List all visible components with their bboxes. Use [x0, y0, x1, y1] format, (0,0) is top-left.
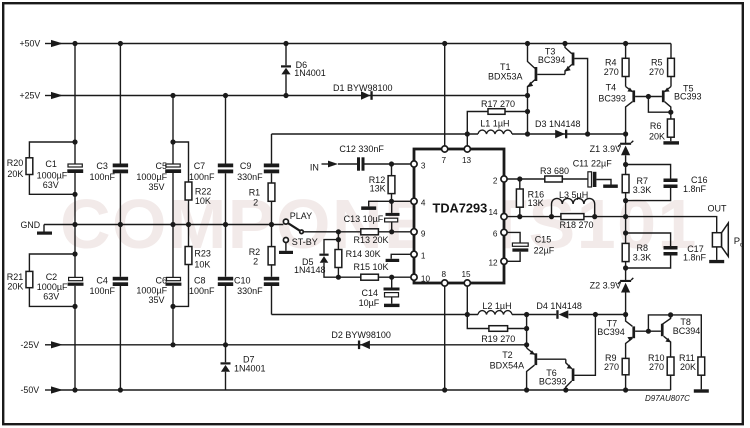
capacitor C5: [136, 161, 181, 192]
svg-text:R3 680: R3 680: [540, 166, 569, 176]
ground bar under R11: [694, 389, 709, 392]
svg-text:C8: C8: [194, 276, 206, 286]
resistor R12: [369, 164, 395, 201]
capacitor C11: [573, 159, 613, 188]
svg-text:13: 13: [462, 156, 472, 165]
pin 1: [411, 251, 426, 260]
capacitor C15: [507, 232, 555, 261]
capacitor C13: [344, 201, 400, 232]
wire T7/T8 base tie: [635, 312, 673, 334]
pin 14: [489, 208, 508, 220]
node -50V label and arrow: [21, 385, 64, 395]
svg-text:C1: C1: [45, 159, 57, 169]
wire T4/T5 base tie: [635, 94, 673, 115]
svg-text:BC394: BC394: [597, 327, 625, 337]
pin 15: [462, 270, 472, 286]
svg-text:4: 4: [421, 199, 426, 208]
svg-text:35V: 35V: [149, 295, 165, 305]
svg-text:22µF: 22µF: [534, 245, 555, 255]
svg-text:100nF: 100nF: [189, 286, 215, 296]
svg-text:ST-BY: ST-BY: [292, 237, 318, 247]
svg-text:BDX53A: BDX53A: [488, 72, 523, 82]
zener Z1: [590, 134, 634, 165]
svg-text:Z1 3.9V: Z1 3.9V: [590, 144, 622, 154]
capacitor C2: [37, 272, 84, 302]
svg-text:C6: C6: [156, 276, 168, 286]
svg-text:100nF: 100nF: [90, 172, 116, 182]
capacitor C17: [623, 230, 707, 270]
svg-text:63V: 63V: [43, 292, 59, 302]
wire pin13 drop: [466, 134, 468, 146]
inductor L3: [552, 190, 595, 217]
capacitor C9: [237, 161, 279, 182]
capacitor C16: [623, 162, 708, 203]
wire GND rail: [44, 222, 283, 227]
svg-text:270: 270: [649, 362, 664, 372]
svg-text:10K: 10K: [194, 260, 210, 270]
resistor R19: [467, 315, 529, 344]
inductor L2: [478, 301, 512, 315]
transistor T2: [490, 348, 538, 390]
wire C5/C6 column: [170, 96, 175, 345]
svg-text:C2: C2: [46, 272, 58, 282]
svg-text:15: 15: [462, 270, 472, 279]
pin 3: [411, 161, 426, 170]
zener Z2: [590, 268, 634, 315]
ground bar under ST-BY: [279, 243, 293, 254]
pin 4: [411, 198, 426, 207]
svg-text:C15: C15: [535, 234, 552, 244]
svg-text:10µF: 10µF: [359, 298, 380, 308]
transistor T7: [597, 315, 635, 359]
capacitor C7: [189, 161, 233, 182]
svg-text:2: 2: [253, 257, 258, 267]
svg-text:IN: IN: [310, 163, 319, 173]
capacitor C14: [359, 277, 400, 308]
resistor R23: [173, 225, 211, 307]
transistor T6: [539, 315, 596, 391]
svg-text:R13 20K: R13 20K: [354, 235, 389, 245]
resistor R20: [7, 142, 75, 194]
wire C3/C4 column: [119, 44, 121, 391]
pin 13: [462, 146, 472, 165]
svg-text:o: o: [740, 242, 744, 249]
svg-text:BDX54A: BDX54A: [490, 360, 525, 370]
wire -50V rail: [57, 387, 671, 392]
resistor R9: [604, 353, 629, 390]
svg-text:R6: R6: [650, 121, 662, 131]
pin 9: [411, 229, 426, 239]
capacitor C3: [90, 161, 129, 182]
wire pin4 line: [389, 199, 411, 204]
svg-text:1000µF: 1000µF: [136, 286, 167, 296]
capacitor C4: [90, 276, 129, 297]
svg-text:C12 330nF: C12 330nF: [339, 144, 384, 154]
resistor R5: [649, 44, 674, 87]
svg-text:2: 2: [253, 198, 258, 208]
diode D3: [535, 119, 581, 138]
svg-text:T1: T1: [500, 62, 511, 72]
svg-text:8: 8: [442, 270, 447, 279]
svg-text:13K: 13K: [370, 184, 386, 194]
op-amp U1 TDA7293 body: [414, 149, 504, 283]
svg-text:270: 270: [604, 67, 619, 77]
svg-text:10K: 10K: [195, 196, 211, 206]
svg-text:330nF: 330nF: [237, 172, 263, 182]
ground bar at pin4 node: [361, 201, 391, 210]
svg-text:R5: R5: [651, 57, 663, 67]
svg-text:1N4001: 1N4001: [234, 364, 266, 374]
svg-text:9: 9: [421, 229, 426, 238]
svg-text:3: 3: [421, 161, 426, 170]
capacitor C6: [136, 276, 181, 306]
resistor R6: [649, 112, 674, 141]
speaker P: [709, 223, 744, 263]
svg-text:270: 270: [649, 67, 664, 77]
transistor T3: [538, 44, 588, 135]
svg-text:+50V: +50V: [20, 39, 41, 49]
svg-text:R15 10K: R15 10K: [354, 262, 389, 272]
svg-text:3.3K: 3.3K: [633, 185, 652, 195]
svg-text:R19 270: R19 270: [481, 334, 515, 344]
svg-text:6: 6: [493, 230, 498, 239]
resistor R14: [335, 232, 381, 280]
diode D2: [331, 330, 391, 349]
resistor R17: [467, 99, 530, 134]
node -25V label and arrow: [21, 340, 64, 350]
svg-text:13K: 13K: [528, 198, 544, 208]
ground bar at C11: [596, 180, 617, 188]
svg-text:1N4001: 1N4001: [294, 68, 326, 78]
wire OUT line: [507, 214, 717, 233]
wire pin10 line: [338, 275, 410, 280]
svg-text:D2 BYW98100: D2 BYW98100: [331, 330, 391, 340]
svg-text:BC394: BC394: [538, 55, 566, 65]
svg-text:BC394: BC394: [673, 326, 701, 336]
svg-text:D4 1N4148: D4 1N4148: [536, 301, 582, 311]
resistor R7: [622, 165, 651, 201]
svg-text:1.8nF: 1.8nF: [683, 253, 707, 263]
wire node B column x=527.5: [527, 96, 529, 135]
resistor R11: [671, 315, 705, 389]
resistor R13: [354, 229, 389, 245]
switch lever: [288, 223, 303, 234]
svg-text:BC393: BC393: [598, 93, 626, 103]
svg-text:GND: GND: [21, 220, 41, 230]
svg-text:+25V: +25V: [20, 91, 41, 101]
svg-text:100nF: 100nF: [189, 172, 215, 182]
capacitor C10: [234, 276, 279, 297]
svg-text:12: 12: [489, 259, 499, 268]
diode D6: [281, 44, 326, 96]
resistor R2: [249, 247, 275, 267]
resistor R3: [540, 166, 588, 182]
switch PLAY contact: [283, 211, 312, 224]
svg-text:C11 22µF: C11 22µF: [573, 159, 613, 169]
svg-text:C7: C7: [194, 161, 206, 171]
pin 8: [442, 270, 448, 286]
wire pin15 drop: [466, 286, 468, 314]
svg-text:7: 7: [442, 156, 447, 165]
svg-text:TDA7293: TDA7293: [433, 201, 488, 216]
diode D4: [536, 301, 582, 319]
svg-text:C14: C14: [362, 288, 379, 298]
svg-text:C10: C10: [234, 276, 251, 286]
resistor R8: [622, 233, 651, 268]
wire C9/R1 column: [271, 134, 273, 225]
svg-text:L3 5µH: L3 5µH: [559, 190, 588, 200]
svg-text:-25V: -25V: [21, 340, 40, 350]
switch ST-BY contact: [283, 237, 317, 247]
wire pin13 supply line y=134: [272, 131, 629, 136]
svg-text:L2 1µH: L2 1µH: [482, 301, 511, 311]
resistor R15: [354, 262, 389, 280]
diode D5: [294, 240, 338, 278]
svg-text:D3 1N4148: D3 1N4148: [535, 119, 581, 129]
svg-text:PLAY: PLAY: [290, 211, 312, 221]
svg-text:3.3K: 3.3K: [633, 253, 652, 263]
resistor R16: [516, 179, 544, 217]
pin 2: [493, 176, 507, 186]
resistor R10: [648, 353, 674, 390]
capacitor C1: [37, 159, 84, 190]
svg-text:330nF: 330nF: [237, 286, 263, 296]
svg-text:BC393: BC393: [674, 91, 702, 101]
svg-text:20K: 20K: [7, 169, 23, 179]
svg-text:63V: 63V: [43, 180, 59, 190]
svg-text:R20: R20: [7, 158, 24, 168]
resistor R1: [249, 183, 275, 208]
svg-text:100nF: 100nF: [90, 286, 116, 296]
wire pin8 to -50V: [444, 286, 446, 390]
capacitor C8: [189, 276, 233, 297]
ground bar at pin1: [386, 254, 411, 262]
svg-text:C9: C9: [240, 161, 252, 171]
wire node B2 column x=526.6: [526, 315, 528, 349]
transistor T1: [488, 44, 537, 96]
pin 6: [493, 229, 507, 238]
svg-text:1000µF: 1000µF: [136, 172, 167, 182]
wire -25V rail: [57, 342, 529, 347]
svg-text:10: 10: [421, 274, 431, 283]
transistor T5: [662, 83, 702, 112]
svg-text:270: 270: [604, 362, 619, 372]
svg-text:D97AU807C: D97AU807C: [645, 394, 690, 403]
svg-text:OUT: OUT: [708, 204, 728, 214]
wire R2/C10 column: [271, 225, 273, 315]
svg-text:1000µF: 1000µF: [37, 282, 68, 292]
svg-text:L1 1µH: L1 1µH: [480, 119, 509, 129]
wire C1/C2 column: [72, 44, 77, 391]
svg-text:R1: R1: [249, 188, 261, 198]
wire C7/C8 column: [225, 96, 227, 345]
svg-text:Z2 3.9V: Z2 3.9V: [590, 280, 622, 290]
diode D7: [221, 345, 266, 390]
capacitor C12: [338, 144, 411, 171]
svg-text:14: 14: [489, 208, 499, 217]
pin 12: [489, 258, 508, 267]
svg-text:BC393: BC393: [539, 376, 567, 386]
svg-text:20K: 20K: [7, 281, 23, 291]
resistor R22: [173, 142, 211, 225]
svg-text:T2: T2: [502, 350, 513, 360]
resistor R4: [604, 44, 629, 87]
node +25V label and arrow: [20, 91, 64, 101]
wire R7 node to OUT: [625, 201, 627, 233]
svg-text:C3: C3: [96, 161, 108, 171]
svg-text:R17 270: R17 270: [481, 99, 515, 109]
wire pin15 supply line y=314.5: [272, 312, 629, 317]
transistor T8: [661, 315, 700, 357]
ground bar under R6: [663, 141, 679, 144]
svg-text:R4: R4: [605, 57, 617, 67]
svg-text:-50V: -50V: [21, 385, 40, 395]
wire pin7 to +50V: [444, 44, 446, 146]
wire T1 base to T3 emitter: [537, 73, 565, 75]
svg-text:R14 30K: R14 30K: [346, 249, 381, 259]
wire pin2 node line: [507, 176, 545, 181]
inductor L1: [478, 119, 512, 135]
node +50V label and arrow: [20, 39, 64, 49]
svg-text:R22: R22: [195, 187, 212, 197]
wire pin9 line: [303, 229, 411, 234]
pin 10: [411, 274, 431, 283]
diode D1: [333, 83, 393, 100]
node IN label and arrow: [310, 161, 338, 173]
svg-text:C13 10µF: C13 10µF: [344, 214, 384, 224]
wire +25V rail: [57, 93, 530, 98]
svg-text:1.8nF: 1.8nF: [683, 184, 707, 194]
pin 7: [442, 146, 448, 165]
svg-text:35V: 35V: [149, 182, 165, 192]
svg-text:2: 2: [493, 177, 498, 186]
resistor R18: [560, 214, 594, 230]
ground symbol GND: [37, 225, 52, 235]
svg-text:R18 270: R18 270: [560, 220, 594, 230]
svg-text:1000µF: 1000µF: [37, 171, 68, 181]
transistor T4: [598, 83, 635, 135]
wire +50V rail: [57, 41, 671, 46]
resistor R21: [7, 254, 75, 306]
svg-text:20K: 20K: [649, 131, 665, 141]
wire T2 base to T6 emitter: [537, 358, 566, 360]
svg-text:1N4148: 1N4148: [294, 265, 326, 275]
svg-text:R2: R2: [249, 247, 261, 257]
svg-text:20K: 20K: [680, 362, 696, 372]
svg-text:C5: C5: [156, 161, 168, 171]
svg-text:D1 BYW98100: D1 BYW98100: [333, 83, 393, 93]
svg-text:R23: R23: [194, 249, 211, 259]
svg-text:C4: C4: [96, 276, 108, 286]
svg-text:T4: T4: [606, 83, 617, 93]
svg-text:1: 1: [421, 251, 426, 260]
